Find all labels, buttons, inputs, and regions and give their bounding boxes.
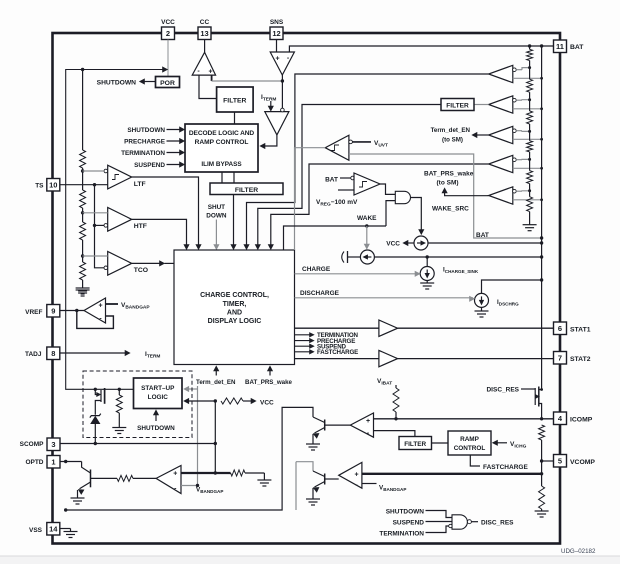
svg-text:8: 8 bbox=[51, 349, 55, 358]
svg-text:1: 1 bbox=[51, 457, 55, 466]
svg-text:+: + bbox=[173, 471, 177, 478]
svg-text:STAT2: STAT2 bbox=[570, 356, 591, 363]
svg-text:POR: POR bbox=[160, 80, 175, 87]
svg-text:ILIM BYPASS: ILIM BYPASS bbox=[201, 161, 242, 168]
svg-text:SHUTDOWN: SHUTDOWN bbox=[137, 425, 175, 432]
svg-text:SUSPEND: SUSPEND bbox=[134, 162, 165, 169]
svg-text:SUSPEND: SUSPEND bbox=[393, 520, 425, 527]
svg-text:DOWN: DOWN bbox=[206, 213, 227, 220]
svg-text:+: + bbox=[354, 472, 358, 479]
svg-text:+: + bbox=[366, 418, 370, 425]
svg-text:TS: TS bbox=[35, 183, 44, 190]
svg-text:DECODE LOGIC AND: DECODE LOGIC AND bbox=[189, 130, 255, 137]
svg-text:VREF: VREF bbox=[25, 309, 42, 316]
svg-text:10: 10 bbox=[49, 180, 57, 189]
svg-text:SNS: SNS bbox=[270, 19, 284, 26]
svg-text:LTF: LTF bbox=[134, 181, 146, 188]
svg-text:PRECHARGE: PRECHARGE bbox=[124, 139, 166, 146]
svg-text:TADJ: TADJ bbox=[25, 351, 42, 358]
svg-text:SCOMP: SCOMP bbox=[20, 441, 45, 448]
svg-text:Term_det_EN: Term_det_EN bbox=[431, 127, 471, 134]
svg-text:VCC: VCC bbox=[260, 400, 274, 407]
svg-text:FASTCHARGE: FASTCHARGE bbox=[317, 349, 358, 356]
svg-text:14: 14 bbox=[49, 524, 58, 533]
svg-text:12: 12 bbox=[272, 29, 280, 38]
svg-text:WAKE_SRC: WAKE_SRC bbox=[432, 206, 469, 213]
svg-text:VCC: VCC bbox=[386, 241, 400, 248]
svg-text:CHARGE CONTROL,: CHARGE CONTROL, bbox=[200, 292, 269, 299]
svg-text:VCOMP: VCOMP bbox=[570, 459, 595, 466]
svg-text:SHUTDOWN: SHUTDOWN bbox=[97, 80, 137, 87]
svg-text:VSS: VSS bbox=[29, 527, 43, 534]
svg-text:TIMER,: TIMER, bbox=[223, 301, 247, 308]
svg-text:CONTROL: CONTROL bbox=[454, 445, 486, 452]
svg-text:START–UP: START–UP bbox=[141, 385, 175, 392]
svg-text:+: + bbox=[208, 69, 212, 76]
svg-text:DISC_RES: DISC_RES bbox=[481, 520, 514, 527]
svg-text:SHUTDOWN: SHUTDOWN bbox=[127, 127, 165, 134]
svg-text:7: 7 bbox=[558, 353, 562, 362]
svg-text:CHARGE: CHARGE bbox=[302, 266, 331, 273]
svg-text:RAMP CONTROL: RAMP CONTROL bbox=[195, 139, 249, 146]
svg-text:+: + bbox=[98, 303, 102, 310]
svg-text:2: 2 bbox=[166, 29, 170, 38]
svg-text:TCO: TCO bbox=[134, 267, 148, 274]
svg-text:9: 9 bbox=[51, 306, 55, 315]
svg-text:STAT1: STAT1 bbox=[570, 327, 591, 334]
svg-text:CC: CC bbox=[200, 19, 210, 26]
svg-text:5: 5 bbox=[558, 456, 562, 465]
svg-text:AND: AND bbox=[227, 310, 242, 317]
svg-text:OPTD: OPTD bbox=[25, 459, 43, 466]
svg-text:FILTER: FILTER bbox=[446, 103, 469, 110]
svg-text:LOGIC: LOGIC bbox=[148, 394, 169, 401]
svg-text:BAT: BAT bbox=[570, 44, 584, 51]
svg-text:HTF: HTF bbox=[134, 223, 147, 230]
svg-text:VCC: VCC bbox=[161, 19, 175, 26]
svg-text:FILTER: FILTER bbox=[235, 187, 258, 194]
svg-text:+: + bbox=[275, 56, 279, 63]
svg-text:FILTER: FILTER bbox=[404, 441, 426, 448]
svg-text:FILTER: FILTER bbox=[223, 98, 246, 105]
svg-text:DISC_RES: DISC_RES bbox=[486, 387, 519, 394]
svg-text:BAT: BAT bbox=[325, 177, 338, 184]
svg-text:UDG–02182: UDG–02182 bbox=[561, 548, 596, 555]
svg-text:DISPLAY LOGIC: DISPLAY LOGIC bbox=[208, 318, 262, 325]
svg-text:SHUTDOWN: SHUTDOWN bbox=[386, 509, 425, 516]
svg-text:FASTCHARGE: FASTCHARGE bbox=[483, 464, 528, 471]
svg-text:13: 13 bbox=[200, 29, 208, 38]
svg-text:DISCHARGE: DISCHARGE bbox=[300, 290, 340, 297]
svg-text:WAKE: WAKE bbox=[357, 215, 377, 222]
svg-text:ICOMP: ICOMP bbox=[570, 417, 593, 424]
svg-text:Term_det_EN: Term_det_EN bbox=[196, 379, 236, 386]
svg-text:(to SM): (to SM) bbox=[442, 137, 463, 144]
svg-text:TERMINATION: TERMINATION bbox=[379, 531, 424, 538]
svg-text:6: 6 bbox=[558, 324, 562, 333]
svg-text:3: 3 bbox=[51, 440, 55, 449]
svg-text:(to SM): (to SM) bbox=[437, 180, 459, 187]
svg-text:SHUT: SHUT bbox=[208, 204, 225, 211]
svg-text:BAT_PRS_wake: BAT_PRS_wake bbox=[424, 171, 474, 178]
svg-text:11: 11 bbox=[556, 42, 564, 51]
svg-text:TERMINATION: TERMINATION bbox=[121, 150, 165, 157]
svg-text:BAT: BAT bbox=[476, 232, 489, 239]
svg-text:BAT_PRS_wake: BAT_PRS_wake bbox=[245, 379, 293, 386]
svg-text:RAMP: RAMP bbox=[460, 436, 480, 443]
